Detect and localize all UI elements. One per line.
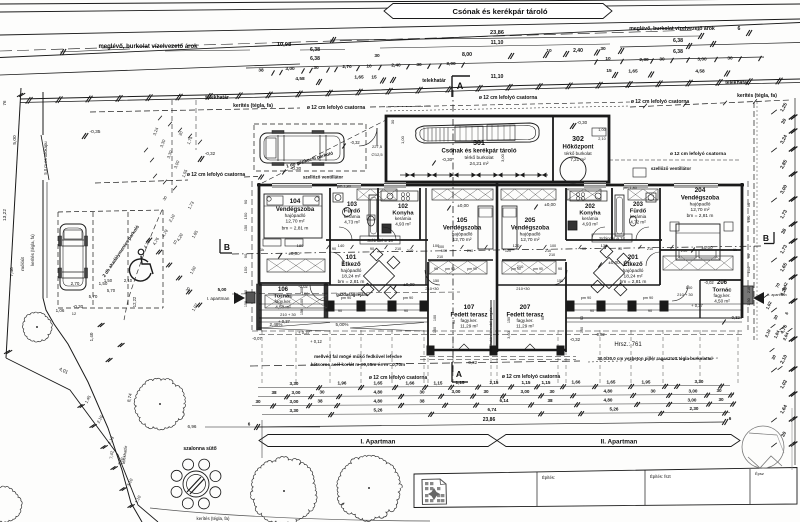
main dim chain top [246,57,764,68]
partial tree bottom-left [0,486,22,522]
svg-text:107: 107 [464,304,475,311]
svg-text:90: 90 [558,267,562,271]
gutter dashed lines [90,108,300,112]
svg-text:1,15: 1,15 [542,380,551,385]
svg-text:kerítés (tégla, fa): kerítés (tégla, fa) [737,93,777,99]
svg-text:150: 150 [507,317,511,323]
svg-text:150: 150 [243,266,248,273]
vertical guide dashed lines [261,330,263,384]
svg-text:100: 100 [686,285,693,290]
svg-text:38: 38 [271,390,277,395]
svg-text:hajópadló: hajópadló [452,232,473,238]
svg-text:szalonna sütő: szalonna sütő [183,446,216,452]
svg-text:30: 30 [549,389,555,394]
svg-text:30: 30 [390,119,395,124]
svg-text:90: 90 [244,290,248,294]
porch columns right [566,301,574,311]
svg-text:3,00: 3,00 [290,399,299,404]
dim row lines [258,386,730,388]
right misc ticks [771,110,777,114]
svg-text:6,96: 6,96 [188,424,197,429]
svg-text:ø 12 cm lefolyó csatorna: ø 12 cm lefolyó csatorna [307,105,366,111]
svg-text:30: 30 [374,53,380,59]
svg-text:1,66: 1,66 [406,380,415,385]
tree left [22,312,52,342]
svg-text:6,74: 6,74 [488,407,497,412]
svg-text:12,22: 12,22 [132,296,137,307]
svg-text:205: 205 [525,217,536,224]
svg-text:30: 30 [483,389,489,394]
svg-text:150: 150 [580,327,584,333]
svg-text:11,10: 11,10 [491,40,504,46]
svg-text:150: 150 [244,301,248,307]
svg-text:5,70: 5,70 [89,294,98,299]
svg-text:bm = 2,81 m: bm = 2,81 m [282,226,309,232]
svg-text:106: 106 [278,287,289,293]
svg-text:120: 120 [513,243,520,248]
svg-text:Schindel ø 18: Schindel ø 18 [367,238,393,243]
svg-text:Schindel ø 18: Schindel ø 18 [599,236,625,241]
svg-text:102: 102 [398,204,409,210]
svg-text:kerítés (tégla, fa): kerítés (tégla, fa) [30,234,35,266]
section marker B left [219,239,221,253]
section marker A top [451,76,453,97]
svg-text:30: 30 [718,397,724,402]
svg-text:18,24 m²: 18,24 m² [342,274,361,280]
svg-text:A: A [456,369,462,379]
interior walls left apt [329,188,331,285]
svg-text:30: 30 [416,62,422,68]
room 103 fixtures [333,193,343,202]
svg-text:150: 150 [244,225,248,231]
svg-text:90: 90 [434,267,438,271]
svg-text:11,10: 11,10 [491,74,504,80]
svg-text:pm 90: pm 90 [581,296,592,300]
svg-text:227,5: 227,5 [372,144,383,149]
svg-text:hajópadló: hajópadló [690,202,711,208]
door arc storage left [359,128,377,146]
svg-text:3,30: 3,30 [290,381,299,386]
svg-text:38: 38 [317,399,323,404]
svg-text:210: 210 [549,253,555,257]
svg-text:6,38: 6,38 [310,47,320,53]
svg-text:1,96: 1,96 [338,381,347,386]
svg-text:1,15: 1,15 [456,380,465,385]
svg-text:180: 180 [297,243,304,248]
svg-text:3,00: 3,00 [521,389,530,394]
svg-text:kerítés (tégla, fa): kerítés (tégla, fa) [233,103,273,109]
svg-text:7,42: 7,42 [109,450,115,459]
svg-text:4,93 m²: 4,93 m² [395,222,411,227]
svg-text:12: 12 [72,311,77,316]
svg-text:∅12,5: ∅12,5 [371,152,383,157]
svg-text:+ 0,37: + 0,37 [691,303,703,308]
parking stalls dashed [57,212,59,308]
svg-text:fagy.ker.: fagy.ker. [713,293,730,298]
svg-text:ø 12 cm lefolyó csatorna: ø 12 cm lefolyó csatorna [479,95,538,101]
title block [414,468,797,508]
svg-text:150: 150 [433,327,437,333]
svg-text:150: 150 [243,212,248,219]
bed 204 [676,224,720,260]
svg-text:90: 90 [243,253,248,258]
svg-text:3,00: 3,00 [446,61,456,67]
eaves dashed outline [251,181,253,330]
svg-text:±0,00: ±0,00 [701,245,713,250]
svg-text:150: 150 [433,279,439,283]
step triangles terrace [458,344,470,350]
svg-text:203: 203 [633,202,644,208]
svg-text:30: 30 [716,388,722,393]
svg-text:150: 150 [300,309,304,315]
svg-text:ø 12 cm lefolyó csatorna: ø 12 cm lefolyó csatorna [187,172,246,178]
svg-text:4,80: 4,80 [604,389,613,394]
svg-text:térkő burkolat: térkő burkolat [564,151,592,156]
svg-text:90: 90 [618,247,622,251]
svg-text:210: 210 [647,247,653,251]
svg-text:38: 38 [419,398,425,403]
svg-text:23,86: 23,86 [483,417,496,423]
svg-text:4,58: 4,58 [695,69,705,75]
svg-text:fagy.ker.: fagy.ker. [516,318,533,323]
svg-text:kerámia: kerámia [344,214,361,219]
svg-text:90: 90 [648,309,652,313]
svg-text:103: 103 [347,202,358,208]
svg-text:104: 104 [290,198,301,205]
svg-text:1,66: 1,66 [572,380,581,385]
window gaps on top wall [272,183,312,188]
svg-text:térkő burkolat: térkő burkolat [464,155,494,161]
svg-text:szellőző ventillátor: szellőző ventillátor [303,175,344,180]
svg-text:hajópadló: hajópadló [341,268,362,274]
svg-text:2,70: 2,70 [342,64,352,70]
svg-text:10: 10 [605,56,611,62]
svg-text:10,98: 10,98 [277,42,292,48]
svg-text:fagy.ker.: fagy.ker. [274,299,291,304]
parked car top (horizontal) [260,133,344,163]
svg-text:kerámia: kerámia [395,216,412,221]
svg-text:pm 90: pm 90 [533,267,543,271]
room 203 [615,195,624,236]
svg-text:30: 30 [313,65,319,71]
svg-text:210+30: 210+30 [516,286,530,291]
building exterior walls [257,184,744,187]
svg-text:12,70 m²: 12,70 m² [521,237,540,243]
svg-text:fagy.ker.: fagy.ker. [460,318,477,323]
svg-text:30: 30 [600,46,606,52]
svg-text:4,80: 4,80 [604,398,613,403]
svg-text:B: B [224,242,230,252]
svg-text:3,00: 3,00 [500,153,505,162]
svg-text:18,24 m²: 18,24 m² [624,274,643,280]
svg-text:hajópadló: hajópadló [623,268,644,274]
svg-text:1k: 1k [733,248,737,252]
svg-text:100: 100 [441,249,447,253]
svg-text:30,0/30,0 cm vezbeton pillér r: 30,0/30,0 cm vezbeton pillér ragasztott … [597,356,712,361]
svg-text:6: 6 [248,422,251,427]
svg-text:204: 204 [695,187,706,194]
svg-text:-0,30: -0,30 [577,120,588,125]
svg-text:bm = 2,81 m: bm = 2,81 m [687,213,714,219]
svg-text:7,46: 7,46 [9,267,15,277]
svg-text:101: 101 [346,254,357,261]
svg-text:38: 38 [258,68,264,74]
svg-text:2,30: 2,30 [690,406,699,411]
svg-text:3,00: 3,00 [697,57,707,63]
svg-text:90: 90 [590,309,594,313]
svg-text:telekhatár: telekhatár [422,78,446,84]
svg-text:kétsoros acél korlát m =0,95m: kétsoros acél korlát m =0,95m és m =0,70… [311,362,405,367]
svg-text:Vendégszoba: Vendégszoba [276,207,315,213]
svg-text:1,15: 1,15 [522,380,531,385]
svg-text:5,70: 5,70 [107,288,116,293]
svg-text:4,80: 4,80 [374,399,383,404]
svg-text:90: 90 [332,247,336,251]
svg-text:mólóút: mólóút [20,257,25,271]
svg-text:5,00: 5,00 [12,135,18,145]
svg-text:210: 210 [467,249,473,253]
svg-text:telekhatár: telekhatár [205,95,229,101]
dashed diagonal storage-building [262,120,386,183]
svg-text:-0,30: -0,30 [73,304,84,309]
svg-text:2,40: 2,40 [391,63,401,69]
svg-text:pm 1,80: pm 1,80 [337,185,351,189]
svg-text:5,0 m-es tolókapu: 5,0 m-es tolókapu [43,141,48,175]
svg-text:5,00%: 5,00% [335,322,348,327]
banner: Csonak es kerekpar tarolo [384,4,612,19]
svg-text:Csónak és kerékpár tároló: Csónak és kerékpár tároló [453,7,548,16]
svg-text:-0,30: -0,30 [442,157,453,162]
svg-text:6,14: 6,14 [500,398,509,403]
svg-text:30: 30 [319,390,325,395]
svg-text:Építés: fszt: Építés: fszt [650,474,672,479]
svg-text:±0,00: ±0,00 [544,202,556,207]
svg-text:100: 100 [433,315,437,321]
svg-text:szellőző ventillátor: szellőző ventillátor [651,166,692,171]
svg-text:202: 202 [585,204,596,210]
svg-text:210 + 30: 210 + 30 [677,292,693,297]
svg-text:100: 100 [433,243,440,248]
svg-text:I. Apartman: I. Apartman [361,439,396,446]
svg-text:kerámia: kerámia [582,216,599,221]
door arcs interior [330,252,344,266]
svg-text:150: 150 [746,266,751,273]
svg-text:Építés:: Építés: [542,475,555,480]
section line B-B [232,246,762,254]
svg-text:100: 100 [300,299,304,305]
svg-text:1,65: 1,65 [374,381,383,386]
room 104 bed [264,194,322,238]
svg-text:±0,00: ±0,00 [608,260,620,265]
svg-text:8,00: 8,00 [462,52,472,58]
svg-text:4,50 m²: 4,50 m² [714,299,730,304]
svg-text:90: 90 [580,316,584,320]
svg-text:6,38: 6,38 [673,38,683,44]
terraces 107/207 [427,262,429,352]
svg-text:6,38: 6,38 [673,49,683,55]
svg-text:3,60: 3,60 [507,331,511,338]
stamp square [422,479,447,505]
svg-text:bm = 2,81 m: bm = 2,81 m [338,279,365,285]
svg-text:1,15: 1,15 [434,380,443,385]
right circle feature [742,426,784,468]
svg-text:Vendégszoba: Vendégszoba [681,196,720,202]
svg-text:6,38: 6,38 [310,56,320,62]
svg-text:ø 12 cm lefolyó csatorna: ø 12 cm lefolyó csatorna [631,99,690,105]
svg-text:210+30: 210+30 [425,286,439,291]
svg-text:4,80: 4,80 [374,390,383,395]
svg-text:210: 210 [681,248,688,253]
section marker B right [773,232,775,244]
svg-text:Csónak és kerékpár tároló: Csónak és kerékpár tároló [441,149,516,155]
svg-text:120: 120 [505,249,511,253]
schindel box right [592,234,632,242]
A marker bottom [451,362,453,382]
svg-text:15: 15 [371,75,377,81]
svg-text:207: 207 [520,304,531,311]
door pillar dark right [743,286,753,304]
svg-text:2,15: 2,15 [490,380,499,385]
svg-text:2,30: 2,30 [639,57,649,63]
trees bottom [134,378,185,430]
svg-text:pm 90: pm 90 [643,296,654,300]
svg-text:3,30: 3,30 [695,379,704,384]
right boundary dashed [753,102,755,340]
driveway dashed arc [124,210,162,320]
svg-text:301: 301 [473,140,485,147]
svg-text:bm = 2,81 m: bm = 2,81 m [620,279,647,285]
svg-text:-0,35: -0,35 [90,129,101,135]
boat in storage [416,123,539,143]
svg-text:3,30: 3,30 [290,408,299,413]
bottom fence line [150,508,430,521]
yard dashed vertical [171,100,173,196]
gate [41,135,49,180]
storage outer wall [386,116,609,182]
svg-text:210: 210 [545,249,551,253]
svg-text:10: 10 [546,48,552,54]
svg-text:90: 90 [370,247,374,251]
svg-text:3,00: 3,00 [689,388,698,393]
svg-text:3,00: 3,00 [688,397,697,402]
svg-text:±0,00: ±0,00 [288,251,300,256]
svg-text:-0,02: -0,02 [704,280,714,285]
left property boundary [6,88,21,358]
svg-text:A: A [457,81,464,91]
svg-text:150: 150 [557,279,563,283]
schindel box [360,236,400,244]
svg-text:23,86: 23,86 [490,30,504,36]
svg-text:1,00: 1,00 [598,128,605,132]
svg-text:1,50: 1,50 [747,298,751,305]
svg-text:1,06: 1,06 [56,308,65,313]
svg-text:12,70 m²: 12,70 m² [453,237,472,243]
x-hatch porch strips [265,295,327,308]
svg-text:meglévő, burkolat vízelvezető: meglévő, burkolat vízelvezető árok [629,26,715,32]
svg-text:kerítés (tégla, fa): kerítés (tégla, fa) [197,516,230,521]
svg-text:5,00: 5,00 [218,287,227,292]
svg-text:+ 0,12: + 0,12 [310,339,322,344]
svg-text:90: 90 [541,316,545,320]
interior walls right apt [565,188,567,240]
svg-text:Vendégszoba: Vendégszoba [443,226,482,232]
wheelchair symbol [129,259,151,281]
bed 105 [478,206,493,249]
svg-text:76: 76 [2,100,7,106]
section line A-A [452,90,454,372]
svg-text:210: 210 [517,264,524,269]
svg-text:100: 100 [550,244,556,248]
svg-text:meglévő, burkolat vízelvezető: meglévő, burkolat vízelvezető árok [98,44,198,50]
svg-text:4,73 m²: 4,73 m² [344,220,360,225]
svg-text:210: 210 [747,287,751,293]
svg-text:90: 90 [746,202,751,207]
svg-text:90: 90 [338,309,342,313]
svg-text:24,21 m²: 24,21 m² [470,161,489,167]
svg-text:1,95: 1,95 [642,379,651,384]
svg-text:210 + 30: 210 + 30 [280,312,296,317]
svg-text:6: 6 [729,416,732,421]
svg-text:15: 15 [606,68,612,74]
svg-text:mellvéd fal mögé műkő fedkővel: mellvéd fal mögé műkő fedkővel lefedve [314,354,402,359]
vent arrows row [400,174,548,176]
svg-text:90: 90 [452,320,456,324]
svg-text:38: 38 [547,398,553,403]
svg-text:6: 6 [738,26,741,32]
dining table right [591,245,630,296]
svg-text:-0,30: -0,30 [291,166,302,171]
svg-text:13,22: 13,22 [2,209,8,221]
left road inner fence [42,92,44,135]
svg-text:-0,07: -0,07 [252,336,262,341]
svg-text:3,00: 3,00 [452,389,461,394]
svg-text:150: 150 [746,215,751,222]
bed 205 [502,206,517,249]
svg-text:ø 12 cm lefolyó csatorna: ø 12 cm lefolyó csatorna [670,151,726,157]
porch floor edge [259,317,428,319]
south wall 105/205 with balustrade [428,259,493,261]
svg-text:-0,32: -0,32 [570,337,581,342]
right dim chain [794,98,796,465]
room 202 kitchen [570,191,607,201]
left yard dim column [158,116,162,121]
svg-text:-0,32: -0,32 [350,140,360,145]
svg-text:4,50 m²: 4,50 m² [275,305,291,310]
svg-text:1,65: 1,65 [628,69,638,75]
svg-text:hajópadló: hajópadló [520,232,541,238]
svg-text:-0,32: -0,32 [730,315,740,320]
svg-text:3,00: 3,00 [285,66,295,72]
svg-text:5,26: 5,26 [374,408,383,413]
svg-text:1,65: 1,65 [607,380,616,385]
svg-text:500: 500 [300,287,304,293]
svg-text:30: 30 [419,389,425,394]
svg-text:105: 105 [457,217,468,224]
middle wall [496,183,499,352]
svg-text:90: 90 [404,309,408,313]
svg-text:90: 90 [582,247,586,251]
svg-text:B: B [763,233,769,243]
svg-text:hajópadló: hajópadló [285,213,306,219]
fence band (telekhatar) [20,79,800,99]
svg-text:12,70 m²: 12,70 m² [691,207,710,213]
road edge lines top [0,0,800,4]
svg-text:ø 12 cm lefolyó csatorna: ø 12 cm lefolyó csatorna [502,374,561,380]
svg-text:Hőközpont: Hőközpont [563,145,594,151]
svg-text:11,29 m²: 11,29 m² [516,324,534,329]
svg-text:Épsz: Épsz [755,471,764,476]
ground dashed line [250,361,580,366]
